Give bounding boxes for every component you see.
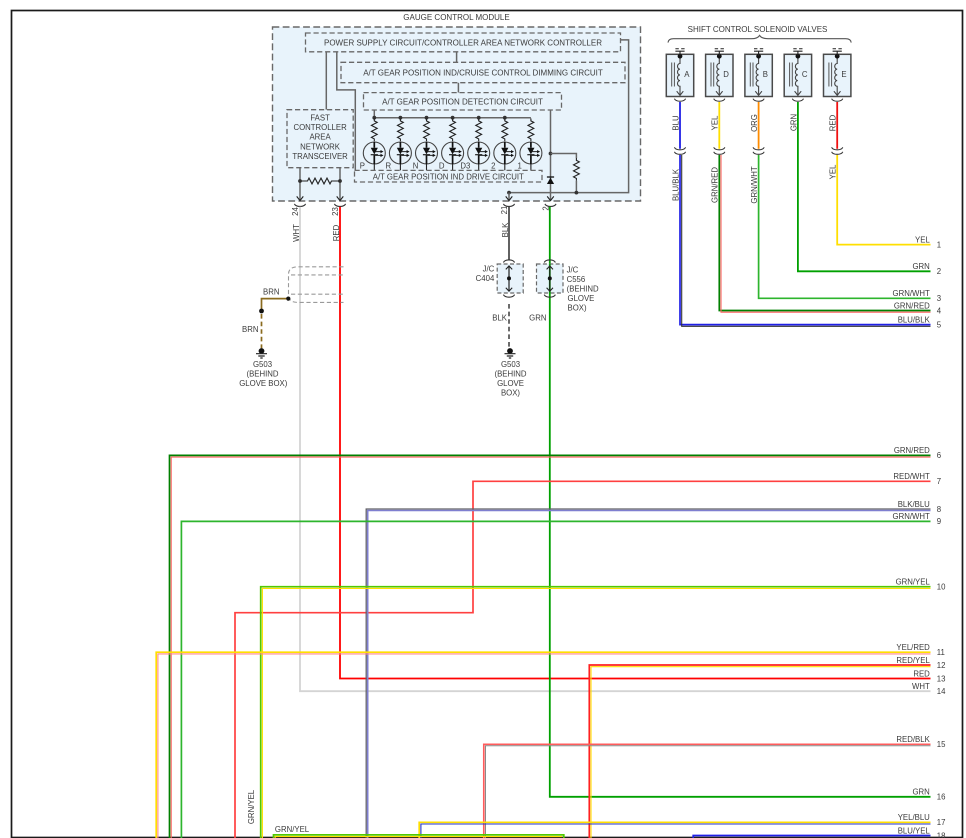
svg-text:3: 3 — [937, 294, 941, 303]
wire ORG solenoid B — [758, 102, 760, 149]
diode D1 — [547, 177, 554, 184]
svg-text:J/C: J/C — [567, 266, 579, 275]
svg-text:BLK: BLK — [492, 314, 508, 323]
svg-text:A: A — [684, 70, 690, 79]
svg-text:7: 7 — [937, 477, 941, 486]
svg-text:GAUGE CONTROL MODULE: GAUGE CONTROL MODULE — [403, 13, 509, 22]
wire GRN/YEL bottom stub — [274, 835, 564, 838]
wire YEL/BLU to terminal 17 — [419, 822, 930, 838]
wire GRN/RED to terminal 6 — [170, 455, 931, 838]
node BRN junction — [259, 309, 264, 314]
svg-text:11: 11 — [937, 648, 945, 657]
resistor R9 CAN terminating — [300, 178, 340, 184]
svg-text:A/T GEAR POSITION IND DRIVE CI: A/T GEAR POSITION IND DRIVE CIRCUIT — [373, 172, 524, 181]
wire RED/BLK to terminal 15 — [484, 744, 931, 838]
label J/C C404 — [476, 265, 495, 284]
junction connector C404 — [497, 260, 523, 293]
svg-text:(BEHIND: (BEHIND — [494, 370, 526, 379]
label G503 left — [239, 360, 287, 388]
svg-text:4: 4 — [937, 306, 942, 315]
svg-text:D3: D3 — [460, 161, 470, 170]
wire RED pin23 to terminal 13 — [340, 207, 931, 679]
wire RED/WHT to terminal 7 — [235, 481, 931, 838]
wire GRN solenoid C to terminal 2 — [798, 102, 931, 271]
svg-text:23: 23 — [331, 207, 340, 216]
ground G503 left — [256, 348, 267, 358]
resistor transceiver stub left — [299, 168, 301, 201]
connector below C — [792, 99, 803, 102]
svg-text:GRN/RED: GRN/RED — [894, 446, 930, 455]
wire BLK/BLU to terminal 8 — [366, 509, 930, 838]
svg-text:A/T GEAR POSITION IND/CRUISE C: A/T GEAR POSITION IND/CRUISE CONTROL DIM… — [363, 68, 603, 77]
svg-text:8: 8 — [937, 505, 941, 514]
wire GRN pin2 through C556 to terminal 16 — [550, 207, 931, 797]
svg-text:FAST: FAST — [310, 114, 330, 123]
inline connector A — [674, 147, 685, 154]
wire BLU solenoid A — [679, 102, 681, 149]
svg-text:B: B — [763, 70, 768, 79]
svg-text:RED/WHT: RED/WHT — [893, 472, 930, 481]
solenoid valve B box — [745, 54, 772, 97]
inline connector D — [714, 147, 725, 154]
C556 bottom connector — [544, 295, 555, 298]
svg-text:J/C: J/C — [483, 265, 495, 274]
wire YEL solenoid D — [718, 102, 720, 149]
svg-text:14: 14 — [937, 687, 946, 696]
svg-text:GRN: GRN — [529, 314, 546, 323]
svg-text:YEL: YEL — [711, 115, 720, 130]
wire detection to diode vertical — [550, 110, 552, 200]
svg-text:GLOVE: GLOVE — [568, 294, 595, 303]
resistor R8 — [574, 158, 580, 181]
svg-text:YEL/BLU: YEL/BLU — [898, 813, 930, 822]
svg-text:GLOVE: GLOVE — [497, 379, 524, 388]
inline connector B — [753, 147, 764, 154]
solenoid valve C box — [784, 54, 811, 97]
connector below B — [753, 99, 764, 102]
wire BLK dashed to ground — [508, 304, 510, 348]
svg-text:A/T GEAR POSITION DETECTION CI: A/T GEAR POSITION DETECTION CIRCUIT — [382, 98, 543, 107]
resistor R1 — [371, 119, 377, 142]
svg-text:AREA: AREA — [309, 133, 331, 142]
svg-text:CONTROLLER: CONTROLLER — [293, 123, 347, 132]
box detection circuit — [364, 93, 562, 110]
node pin21 junction — [507, 191, 511, 195]
svg-text:BLU: BLU — [671, 115, 680, 131]
wire GRN/RED to terminal 4 — [719, 155, 930, 312]
svg-text:18: 18 — [937, 831, 946, 838]
svg-text:RED/YEL: RED/YEL — [896, 656, 930, 665]
svg-text:15: 15 — [937, 740, 946, 749]
wire box1 right hook to bottom rail — [509, 40, 629, 193]
gauge control module outline — [273, 27, 641, 201]
LED D3 — [468, 142, 490, 164]
svg-text:16: 16 — [937, 793, 946, 802]
ground G503 center — [505, 348, 516, 358]
resistor R5 — [476, 119, 482, 142]
resistor R6 — [502, 119, 508, 142]
connector below A — [674, 99, 685, 102]
svg-text:BOX): BOX) — [501, 389, 520, 398]
svg-text:WHT: WHT — [292, 224, 301, 242]
svg-text:GRN/WHT: GRN/WHT — [893, 512, 930, 521]
svg-text:D: D — [439, 161, 445, 170]
svg-text:(BEHIND: (BEHIND — [567, 285, 599, 294]
svg-text:NETWORK: NETWORK — [300, 142, 341, 151]
svg-text:GRN: GRN — [912, 262, 929, 271]
svg-text:C404: C404 — [476, 274, 495, 283]
connector below E — [832, 99, 843, 102]
wire resistor top rail — [374, 117, 531, 119]
svg-text:GLOVE BOX): GLOVE BOX) — [239, 379, 287, 388]
label J/C C556 — [567, 266, 599, 313]
LED 2 — [494, 142, 516, 164]
svg-text:RED: RED — [913, 669, 930, 678]
wire YEL to terminal 1 — [837, 155, 930, 245]
box dimming circuit — [341, 62, 625, 82]
chassis ground A — [675, 49, 684, 56]
svg-text:9: 9 — [937, 517, 941, 526]
svg-text:10: 10 — [937, 583, 946, 592]
pin 2 connector — [545, 204, 556, 207]
svg-text:GRN/WHT: GRN/WHT — [750, 166, 759, 203]
svg-text:2: 2 — [491, 161, 495, 170]
svg-text:C: C — [802, 70, 808, 79]
svg-text:GRN/RED: GRN/RED — [711, 167, 720, 203]
solenoid valve D box — [706, 54, 733, 97]
chassis ground C — [793, 49, 802, 56]
pin 21 arrow — [506, 196, 513, 200]
svg-text:GRN/YEL: GRN/YEL — [247, 789, 256, 824]
svg-text:13: 13 — [937, 674, 946, 683]
resistor R3 — [424, 119, 430, 142]
resistor R2 — [398, 119, 404, 142]
node R8 bottom junction — [575, 191, 579, 195]
wire detection rail stub — [373, 110, 375, 118]
wire BLU/BLK to terminal 5 — [680, 155, 931, 326]
svg-text:TRANSCEIVER: TRANSCEIVER — [292, 152, 348, 161]
wire YEL/RED to terminal 11 — [156, 652, 930, 838]
svg-text:2: 2 — [937, 267, 941, 276]
svg-text:R: R — [386, 161, 392, 170]
svg-text:BLK/BLU: BLK/BLU — [898, 500, 930, 509]
svg-text:1: 1 — [937, 240, 941, 249]
chassis ground E — [833, 49, 842, 56]
svg-text:RED: RED — [829, 114, 838, 131]
LED 1 — [520, 142, 542, 164]
C556 internal arrows — [547, 266, 553, 291]
wire GRN/WHT to terminal 3 — [759, 155, 931, 298]
svg-text:BOX): BOX) — [568, 304, 587, 313]
wire LED bottom stubs — [374, 164, 531, 170]
svg-text:YEL: YEL — [829, 164, 838, 179]
resistor R4 — [450, 119, 456, 142]
wire WHT pin24 to terminal 14 — [300, 207, 931, 691]
wire box2 to box3 stub — [457, 83, 459, 93]
solenoid valve E box — [824, 54, 851, 97]
C404 bottom connector — [503, 295, 514, 298]
svg-text:D: D — [723, 70, 729, 79]
svg-text:BLU/YEL: BLU/YEL — [898, 826, 931, 835]
pin 2 arrow — [547, 196, 554, 200]
solenoid valve A box — [666, 54, 693, 97]
wire BRN horizontal — [262, 299, 289, 311]
pin 24 arrow — [297, 196, 304, 200]
chassis ground B — [754, 49, 763, 56]
svg-text:BLU/BLK: BLU/BLK — [898, 315, 931, 324]
LED D — [442, 142, 464, 164]
svg-text:6: 6 — [937, 451, 941, 460]
wire BRN dashed to ground — [261, 314, 263, 348]
wire BLU/YEL to terminal 18 — [693, 836, 930, 838]
C556 green pass-through — [549, 264, 551, 293]
connector below D — [714, 99, 725, 102]
resistor transceiver stub right — [339, 168, 341, 201]
svg-text:YEL: YEL — [915, 235, 930, 244]
svg-text:BLK: BLK — [501, 222, 510, 238]
svg-text:SHIFT CONTROL SOLENOID VALVES: SHIFT CONTROL SOLENOID VALVES — [688, 25, 828, 34]
inline connector E — [832, 147, 843, 154]
box drive circuit — [355, 170, 543, 182]
svg-text:(BEHIND: (BEHIND — [246, 370, 278, 379]
label G503 center — [494, 360, 526, 398]
connector ghost C401 dashed — [289, 267, 344, 303]
C404 internal arrows — [506, 266, 512, 291]
node BRN to connector — [286, 297, 290, 301]
svg-text:GRN/RED: GRN/RED — [894, 301, 930, 310]
svg-text:C556: C556 — [567, 275, 586, 284]
wire GRN/YEL to terminal 10 — [261, 587, 931, 838]
svg-text:GRN/YEL: GRN/YEL — [896, 578, 931, 587]
svg-text:G503: G503 — [501, 360, 520, 369]
svg-text:POWER SUPPLY CIRCUIT/CONTROLLE: POWER SUPPLY CIRCUIT/CONTROLLER AREA NET… — [324, 38, 602, 47]
svg-text:GRN/YEL: GRN/YEL — [275, 825, 310, 834]
node diode branch — [549, 152, 553, 156]
svg-text:21: 21 — [500, 206, 509, 215]
wire pin 21 riser — [508, 193, 510, 201]
wire GRN/WHT to terminal 9 — [181, 521, 930, 838]
pin 23 arrow — [337, 196, 344, 200]
svg-text:BRN: BRN — [263, 288, 279, 297]
svg-text:BLU/BLK: BLU/BLK — [671, 168, 680, 201]
svg-text:17: 17 — [937, 818, 946, 827]
junction connector C556 — [537, 260, 564, 293]
svg-text:RED/BLK: RED/BLK — [896, 735, 930, 744]
box fast CAN transceiver — [287, 110, 353, 168]
wire module box1 to drive circuit — [337, 52, 356, 171]
svg-text:E: E — [841, 70, 846, 79]
wire RED solenoid E — [836, 102, 838, 149]
svg-text:WHT: WHT — [912, 682, 930, 691]
svg-text:5: 5 — [937, 320, 942, 329]
node rail junctions — [372, 116, 506, 120]
wire RED/YEL to terminal 12 — [589, 665, 930, 838]
svg-text:GRN: GRN — [912, 788, 929, 797]
pin 24 connector — [294, 204, 305, 207]
LED P — [363, 142, 385, 164]
wire module box1 to transceiver — [325, 52, 327, 110]
svg-text:1: 1 — [517, 161, 521, 170]
chassis ground D — [715, 49, 724, 56]
wire box1 to box2 stub — [456, 52, 458, 63]
node transceiver left — [298, 179, 302, 183]
wire BLK pin21 to C404 — [508, 207, 510, 260]
svg-text:YEL/RED: YEL/RED — [896, 643, 930, 652]
svg-text:ORG: ORG — [750, 114, 759, 132]
svg-text:P: P — [360, 161, 365, 170]
svg-text:GRN: GRN — [789, 114, 798, 131]
svg-text:BRN: BRN — [242, 325, 258, 334]
LED N — [416, 142, 438, 164]
svg-text:24: 24 — [291, 207, 300, 216]
node transceiver right — [338, 179, 342, 183]
svg-text:G503: G503 — [253, 360, 272, 369]
svg-text:RED: RED — [332, 224, 341, 241]
brace — [668, 35, 851, 42]
svg-text:GRN/WHT: GRN/WHT — [893, 289, 930, 298]
wire branch to resistor R8 — [551, 154, 577, 159]
svg-text:N: N — [413, 161, 419, 170]
pin 21 connector — [503, 204, 514, 207]
wire R8 bottom — [575, 181, 577, 193]
LED R — [389, 142, 411, 164]
box power supply circuit — [306, 33, 621, 52]
svg-text:12: 12 — [937, 661, 946, 670]
resistor R7 — [528, 119, 534, 142]
pin 23 connector — [334, 204, 345, 207]
